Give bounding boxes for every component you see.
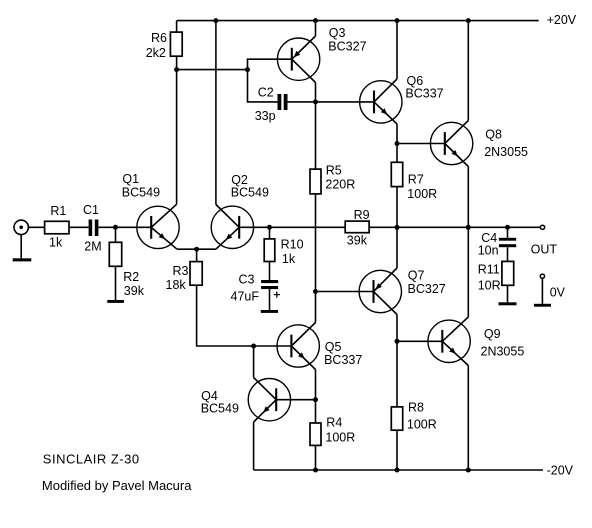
transistor Q7 <box>359 268 401 315</box>
svg-text:R6: R6 <box>151 31 167 45</box>
transistor Q1 <box>137 204 179 249</box>
transistor Q8 <box>430 121 472 167</box>
resistor R8 <box>391 407 402 430</box>
wire: node to R7 <box>396 144 398 163</box>
wire: node to Q9 base <box>397 340 442 342</box>
ground (0V) <box>534 304 551 307</box>
wire: node to R8 <box>396 341 398 407</box>
svg-text:Q8: Q8 <box>485 128 502 142</box>
junction: R4 at -20V rail <box>313 468 318 473</box>
wire: Q5 emitter to R4 node <box>315 370 317 400</box>
wire: +20V supply rail <box>177 20 539 22</box>
svg-text:39k: 39k <box>347 234 368 248</box>
wire: Q3 emitter to +20V rail <box>315 21 317 36</box>
wire: node to R5 <box>315 102 317 169</box>
wire: input terminal to ground <box>20 235 22 259</box>
svg-text:BC549: BC549 <box>122 185 160 199</box>
wire: input to R1 <box>29 226 45 228</box>
wire: R1 to C1 <box>69 226 89 228</box>
svg-text:2N3055: 2N3055 <box>481 345 525 359</box>
svg-text:Q9: Q9 <box>484 327 501 341</box>
transistor Q6 <box>360 79 402 124</box>
svg-text:0V: 0V <box>550 285 566 299</box>
svg-text:R11: R11 <box>478 263 500 277</box>
wire: Q3 collector down <box>315 83 317 102</box>
svg-text:R2: R2 <box>123 270 139 284</box>
svg-text:1k: 1k <box>49 236 63 250</box>
capacitor C2 <box>278 94 288 110</box>
svg-text:1k: 1k <box>282 252 296 266</box>
wire: R2 to ground <box>115 266 117 300</box>
svg-text:C3: C3 <box>239 272 255 286</box>
svg-text:Q1: Q1 <box>122 172 139 186</box>
wire: R5 to Q7 base node <box>315 194 317 292</box>
svg-text:BC327: BC327 <box>328 40 366 54</box>
svg-text:BC549: BC549 <box>201 402 239 416</box>
wire: node to C2 left plate <box>248 70 278 102</box>
wire: +20V rail to R6 <box>176 21 178 32</box>
OUT terminal <box>540 225 544 229</box>
wire: node to R4 <box>315 400 317 423</box>
svg-text:2M: 2M <box>84 240 101 254</box>
svg-text:R10: R10 <box>281 238 304 252</box>
junction: Q3 collector/C2/Q6 base/R5 <box>313 99 318 104</box>
junction: R7/R9/Q7 at output net <box>395 225 400 230</box>
wire: Q1 collector to R6 node <box>176 70 178 205</box>
wire: Q2 emitter to R3 node <box>197 248 216 250</box>
junction: Q6 emitter/R7/Q8 base <box>395 141 400 146</box>
junction: Q7 collector/R8/Q9 base <box>395 339 400 344</box>
transistor Q9 <box>428 317 470 366</box>
svg-text:39k: 39k <box>124 284 145 298</box>
junction: C1/R2/Q1 base <box>113 225 118 230</box>
transistor Q5 <box>277 323 319 370</box>
svg-text:BC549: BC549 <box>231 185 269 199</box>
wire: Q4 base to R4 node <box>276 399 315 401</box>
wire: output net to C4 <box>468 226 507 228</box>
svg-text:10n: 10n <box>478 244 499 258</box>
wire: C4 to R11 <box>507 247 509 261</box>
resistor R5 <box>310 169 321 194</box>
wire: Q6 collector to +20V rail <box>396 21 398 79</box>
svg-text:10R: 10R <box>478 279 501 293</box>
wire: node to Q6 base <box>316 101 375 103</box>
junction: C4/OUT <box>505 225 510 230</box>
junction: Q2 base/R10 <box>267 225 272 230</box>
svg-text:R8: R8 <box>408 401 424 415</box>
svg-text:R7: R7 <box>408 173 424 187</box>
wire: Q5 collector to Q7 base node <box>315 292 317 323</box>
capacitor C3 (electrolytic) <box>261 280 278 289</box>
svg-text:+20V: +20V <box>547 13 577 27</box>
wire: R6 to Q1 collector node <box>176 56 178 69</box>
wire: R11 to ground <box>507 285 509 302</box>
wire: C2 right plate to Q3 collector node <box>288 101 316 103</box>
wire: Q9 emitter to -20V rail <box>467 366 469 471</box>
svg-text:Q7: Q7 <box>408 268 425 282</box>
wire: C1 to Q1 base <box>98 226 151 228</box>
0V terminal <box>540 274 544 278</box>
transistor Q3 <box>277 36 319 83</box>
svg-text:47uF: 47uF <box>231 290 260 304</box>
wire: node to Q7 base <box>316 291 374 293</box>
wire: R9 to output net <box>369 226 397 228</box>
junction: Q6 collector at +20V rail <box>395 18 400 23</box>
junction: R5/Q7 base/Q5 collector <box>313 289 318 294</box>
junction: R3/Q4 collector/Q5 base <box>251 344 256 349</box>
junction: C2 branch/Q3 base <box>245 67 250 72</box>
capacitor C1 <box>89 220 99 237</box>
junction: Q8 collector at +20V rail <box>466 18 471 23</box>
resistor R9 <box>345 221 369 233</box>
wire: Q1 emitter to R3 node <box>177 248 197 250</box>
wire: Q7 collector to R8 node <box>396 315 398 342</box>
svg-text:100R: 100R <box>407 187 437 201</box>
svg-text:R5: R5 <box>326 164 342 178</box>
svg-text:220R: 220R <box>325 178 355 192</box>
resistor R7 <box>391 162 402 186</box>
wire: Q6 emitter to R7 node <box>396 124 398 144</box>
resistor R11 <box>502 261 514 285</box>
junction: Q5 emitter/R4/Q4 base <box>313 397 318 402</box>
wire: node to R10 <box>269 227 271 239</box>
wire: R8 to -20V rail <box>396 430 398 470</box>
wire: C3 to ground <box>269 289 271 310</box>
wire: R7 to output net <box>396 187 398 228</box>
junction: Q8 emitter/Q9 collector at output <box>466 225 471 230</box>
svg-text:BC337: BC337 <box>324 353 362 367</box>
svg-text:100R: 100R <box>407 417 437 431</box>
svg-text:Modified by Pavel Macura: Modified by Pavel Macura <box>42 478 192 493</box>
svg-text:33p: 33p <box>255 109 276 123</box>
wire: R3 to Q5 base net <box>197 285 254 346</box>
wire: -20V supply rail <box>254 469 543 471</box>
svg-text:Q5: Q5 <box>325 340 342 354</box>
wire: feedback node to C2 node <box>177 69 248 71</box>
C3 polarity + <box>274 292 280 298</box>
svg-text:SINCLAIR Z-30: SINCLAIR Z-30 <box>43 452 140 467</box>
resistor R1 <box>45 221 69 234</box>
resistor R6 <box>170 32 182 56</box>
wire: output net <box>397 226 468 228</box>
wire: node to C4 <box>507 227 509 238</box>
svg-text:18k: 18k <box>166 278 187 292</box>
svg-text:-20V: -20V <box>547 463 574 477</box>
svg-text:R9: R9 <box>354 208 370 222</box>
wire: node to R2 <box>115 227 117 242</box>
wire: node to Q5 base <box>254 345 292 347</box>
svg-text:2k2: 2k2 <box>146 46 166 60</box>
transistor Q2 <box>211 205 253 250</box>
ground (R2) <box>107 300 124 303</box>
wire: Q2 collector to +20V rail <box>215 21 217 205</box>
resistor R3 <box>190 262 202 286</box>
wire: emitter node to R3 <box>196 249 198 261</box>
wire: Q9 collector to output net <box>467 227 469 317</box>
wire: Q2 base to R9 <box>239 226 345 228</box>
transistor Q4 <box>248 378 290 423</box>
resistor R4 <box>310 423 321 445</box>
svg-text:100R: 100R <box>325 431 355 445</box>
ground (C3) <box>261 310 278 313</box>
svg-text:R1: R1 <box>50 204 66 218</box>
junction: R8 at -20V rail <box>395 468 400 473</box>
junction: Q2 collector at +20V rail <box>213 18 218 23</box>
svg-text:BC327: BC327 <box>408 282 446 296</box>
capacitor C4 <box>499 238 516 247</box>
input terminal connector <box>14 220 28 234</box>
wire: Q8 emitter to output net <box>467 167 469 228</box>
wire: R4 to -20V rail <box>315 445 317 470</box>
ground (input) <box>13 258 32 261</box>
svg-text:C2: C2 <box>258 85 274 99</box>
svg-text:Q3: Q3 <box>329 26 346 40</box>
wire: to OUT terminal <box>508 226 541 228</box>
svg-text:R4: R4 <box>326 415 342 429</box>
wire: Q7 emitter up to output net <box>396 227 398 268</box>
junction: Q9 emitter at -20V rail <box>466 468 471 473</box>
wire: Q4 collector to Q5 base node <box>253 346 255 378</box>
wire: R10 to C3 <box>269 262 271 281</box>
wire: node to Q3 base <box>248 59 292 69</box>
wire: node to Q8 base <box>397 143 445 145</box>
wire: Q8 collector to +20V rail <box>467 21 469 121</box>
resistor R10 <box>264 239 275 262</box>
svg-text:BC337: BC337 <box>405 87 443 101</box>
wire: 0V terminal to ground <box>541 278 543 304</box>
junction: Q3 emitter at +20V rail <box>313 18 318 23</box>
ground (R11) <box>499 302 517 305</box>
svg-text:R3: R3 <box>173 264 189 278</box>
resistor R2 <box>109 242 121 266</box>
junction: Q1/Q2 emitters and R3 <box>194 247 199 252</box>
svg-text:C1: C1 <box>83 203 99 217</box>
svg-text:2N3055: 2N3055 <box>484 145 528 159</box>
wire: Q4 emitter to -20V rail <box>253 422 255 470</box>
junction: R6/Q1 collector/feedback <box>174 67 179 72</box>
svg-text:OUT: OUT <box>531 243 558 257</box>
